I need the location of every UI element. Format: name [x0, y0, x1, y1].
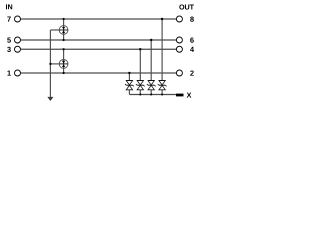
junction rail/D2	[139, 94, 141, 96]
wire line 3-4	[21, 48, 176, 50]
junction F1/line7	[63, 18, 65, 20]
label 1	[7, 71, 10, 76]
junction F2/line3	[63, 48, 65, 50]
junction rail/D3	[150, 94, 152, 96]
junction F2/line1	[63, 72, 65, 74]
label 2	[190, 70, 194, 75]
suppressor diode D3	[147, 40, 156, 95]
label 5	[7, 38, 11, 43]
junction D2/line	[139, 48, 141, 50]
junction F1/line5	[63, 39, 65, 41]
label IN	[6, 4, 12, 9]
terminal 8	[176, 16, 182, 22]
terminal 1	[15, 70, 21, 76]
junction rail/D4	[161, 94, 163, 96]
wire line 5-6	[21, 39, 176, 41]
suppressor diode D2	[136, 49, 145, 94]
terminal 3	[15, 46, 21, 52]
junction earth/F2 lead	[49, 63, 51, 65]
junction D1/line	[128, 72, 130, 74]
label OUT	[179, 4, 194, 9]
wire line 7-8	[21, 18, 176, 20]
gas discharge tube F2 (lines 3/4 to 1/2)	[50, 49, 68, 73]
ground rail	[129, 94, 176, 96]
terminal 2	[176, 70, 182, 76]
label 3	[7, 47, 11, 52]
earth arrow	[47, 97, 53, 101]
label 6	[190, 37, 194, 42]
terminal X bar	[176, 94, 184, 97]
junction D4/line	[161, 18, 163, 20]
terminal 5	[15, 37, 21, 43]
label 8	[190, 16, 194, 21]
wire line 1-2	[21, 72, 176, 74]
junction D3/line	[150, 39, 152, 41]
terminal 7	[15, 16, 21, 22]
terminal 6	[176, 37, 182, 43]
earth wire	[49, 30, 51, 97]
label 7	[7, 17, 10, 22]
suppressor diode D4	[158, 19, 167, 95]
label 4	[190, 47, 194, 52]
terminal 4	[176, 46, 182, 52]
suppressor diode D1	[125, 73, 134, 95]
label X	[187, 93, 192, 98]
gas discharge tube F1 (lines 7/8 to 5/6)	[50, 19, 68, 40]
